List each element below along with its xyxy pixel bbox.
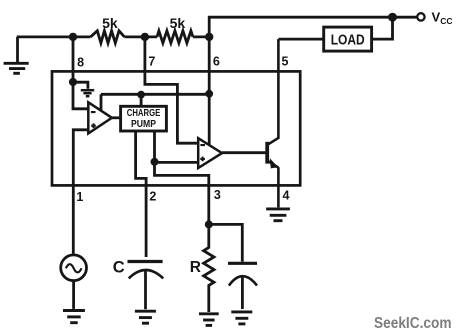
svg-text:5k: 5k	[170, 15, 186, 31]
svg-text:5k: 5k	[102, 15, 118, 31]
svg-text:5: 5	[282, 55, 289, 69]
svg-text:SeekIC.com: SeekIC.com	[374, 315, 452, 332]
svg-text:8: 8	[77, 55, 84, 69]
svg-text:PUMP: PUMP	[131, 119, 156, 130]
svg-text:6: 6	[213, 55, 220, 69]
svg-text:7: 7	[148, 55, 155, 69]
svg-text:CHARGE: CHARGE	[127, 108, 161, 119]
svg-text:R: R	[190, 259, 201, 276]
svg-text:C: C	[113, 258, 125, 276]
svg-text:LOAD: LOAD	[331, 32, 365, 48]
svg-text:4: 4	[283, 188, 290, 202]
svg-text:3: 3	[214, 188, 221, 202]
svg-text:CC: CC	[440, 16, 452, 26]
svg-text:2: 2	[149, 189, 156, 203]
svg-text:1: 1	[76, 190, 83, 204]
svg-text:V: V	[432, 10, 441, 25]
